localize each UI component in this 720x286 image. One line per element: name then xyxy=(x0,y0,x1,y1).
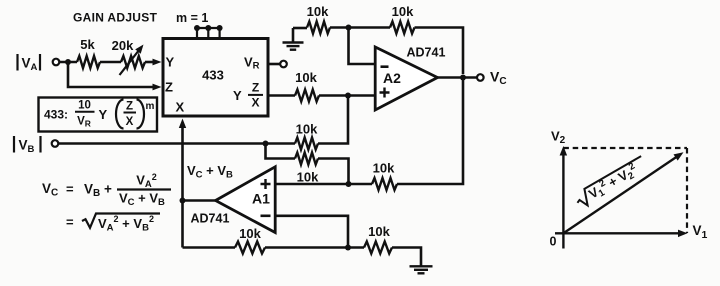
label A1 plus input xyxy=(261,179,271,189)
label VC + VB xyxy=(187,163,233,181)
multifunction converter 433 block xyxy=(163,39,268,117)
vector sum arrow xyxy=(563,152,683,233)
label A1 minus input xyxy=(261,215,271,218)
svg-text:X: X xyxy=(251,95,259,109)
svg-text:20k: 20k xyxy=(112,38,134,53)
svg-text:Z: Z xyxy=(165,80,173,95)
wire VC feedback vertical xyxy=(397,78,463,185)
svg-text:AD741: AD741 xyxy=(407,46,446,60)
pin label Y xyxy=(166,55,175,70)
resistor 10k R8 (A1 inverting to ground) xyxy=(364,242,392,254)
wire VB sum vertical xyxy=(318,96,348,144)
svg-text:VR: VR xyxy=(77,116,91,129)
svg-text:Y: Y xyxy=(99,107,108,122)
svg-text:VA2: VA2 xyxy=(136,172,157,190)
svg-text:V2: V2 xyxy=(551,129,566,147)
dashed line top xyxy=(563,147,687,149)
wire VA junction to Z pin xyxy=(68,62,162,90)
potentiometer 20k wiper arrow xyxy=(120,45,144,76)
svg-text:10k: 10k xyxy=(392,4,414,19)
svg-text:VA: VA xyxy=(22,56,38,74)
formula text 433: 10/VR Y (Z/X)^m xyxy=(44,100,155,129)
label 20k xyxy=(112,38,134,53)
label A1 xyxy=(252,191,270,207)
svg-text:A1: A1 xyxy=(252,191,270,207)
label 10k R4 xyxy=(296,122,318,137)
wire bottom feedback left xyxy=(183,246,236,249)
formula box 433 transfer function xyxy=(39,98,158,132)
label V1 xyxy=(693,223,708,241)
axis V1 (horizontal) xyxy=(555,230,688,238)
resistor 10k R3 (433 output to A2 +) xyxy=(295,90,319,102)
svg-text:10k: 10k xyxy=(296,122,318,137)
svg-text:0: 0 xyxy=(550,235,557,249)
wire X input vertical (VC+VB) xyxy=(179,119,186,248)
svg-text:10k: 10k xyxy=(368,224,390,239)
node A1 noninverting junction xyxy=(346,181,352,187)
svg-text:Y: Y xyxy=(233,88,242,103)
svg-text:X: X xyxy=(126,116,134,128)
svg-text:m: m xyxy=(146,101,155,112)
wire R3 to A2 + input xyxy=(319,94,374,97)
wire VB line xyxy=(58,142,295,145)
label AD741 (A1) xyxy=(191,212,230,226)
svg-text:GAIN ADJUST: GAIN ADJUST xyxy=(73,11,158,25)
label A2 xyxy=(383,70,401,86)
wire R1 to junction xyxy=(330,26,390,29)
label 10k R1 xyxy=(307,4,329,19)
wire A2 output xyxy=(438,76,478,79)
wire VR pin xyxy=(268,63,280,66)
dashed line right xyxy=(686,148,688,233)
node A1 output junction xyxy=(180,198,186,204)
svg-text:VA2 + VB2: VA2 + VB2 xyxy=(98,214,154,234)
label 10k R5 xyxy=(297,170,319,185)
svg-text:10k: 10k xyxy=(239,226,261,241)
svg-text:10k: 10k xyxy=(307,4,329,19)
svg-text:X: X xyxy=(176,100,185,115)
op-amp A2 AD741 xyxy=(375,47,437,110)
svg-text:433:: 433: xyxy=(44,108,68,122)
svg-text:VR: VR xyxy=(244,55,260,72)
resistor 10k R2 (A2 feedback) xyxy=(390,22,415,34)
svg-text:Z: Z xyxy=(126,101,133,113)
label AD741 (A2) xyxy=(407,46,446,60)
label A2 minus input xyxy=(381,65,389,68)
ground G1 xyxy=(283,28,308,50)
svg-text:VC: VC xyxy=(490,69,507,88)
node A1 inverting junction xyxy=(345,245,351,251)
svg-text:=: = xyxy=(66,182,74,197)
resistor 10k R6 (VC to A1 +) xyxy=(372,178,397,190)
label A2 plus input xyxy=(380,88,390,98)
equation VC = VB + VA^2/(VC+VB) xyxy=(42,172,171,208)
label m = 1 xyxy=(176,11,208,25)
wire R2 to output node xyxy=(415,28,464,75)
label 10k R8 xyxy=(368,224,390,239)
label 5k xyxy=(80,37,95,52)
equation VC = sqrt(VA^2+VB^2) xyxy=(66,214,160,234)
svg-text:m = 1: m = 1 xyxy=(176,11,208,25)
node A2 noninverting junction xyxy=(345,93,351,99)
pin label VR xyxy=(244,55,260,72)
label |VA| xyxy=(18,54,41,73)
label |VB| xyxy=(14,136,41,155)
wire VA terminal to 5k xyxy=(59,61,77,64)
wire A1 output to VC+VB node xyxy=(183,199,216,202)
svg-text:Z: Z xyxy=(252,81,259,95)
svg-text:=: = xyxy=(66,215,74,230)
label 10k R7 xyxy=(239,226,261,241)
input terminal |VB| xyxy=(52,140,59,147)
wire R8 to ground xyxy=(392,248,421,267)
svg-text:VC + VB: VC + VB xyxy=(187,163,233,181)
label sqrt(V1^2+V2^2) rotated xyxy=(573,155,650,211)
input terminal |VA| xyxy=(53,59,60,66)
pin label Y·Z/X xyxy=(233,81,263,110)
pin label Z xyxy=(165,80,173,95)
label VC xyxy=(490,69,507,88)
wire VB junction down to R5 xyxy=(266,144,296,159)
node A2 inverting junction xyxy=(346,25,352,31)
wire R7 to junction xyxy=(265,246,364,249)
node VC output junction xyxy=(460,75,466,81)
label 10k R3 xyxy=(295,70,317,85)
wire R5 to A1 + junction xyxy=(318,159,349,185)
resistor 10k R4 (VB to A2 +) xyxy=(295,138,318,150)
433 top trim terminals xyxy=(194,25,223,39)
wire 20k to Y pin xyxy=(145,59,162,66)
svg-text:10k: 10k xyxy=(297,170,319,185)
wire A2 inverting input xyxy=(349,28,375,65)
svg-text:V1: V1 xyxy=(693,223,708,241)
node junction VA/Z xyxy=(65,59,71,65)
svg-text:10k: 10k xyxy=(295,70,317,85)
svg-text:VC: VC xyxy=(42,181,58,199)
resistor 10k R5 (VB to A1 +) xyxy=(295,153,318,165)
svg-text:V12 + V22: V12 + V22 xyxy=(585,161,641,204)
label V2 xyxy=(551,129,566,147)
svg-text:VB: VB xyxy=(19,138,35,156)
axis V2 (vertical) xyxy=(560,146,568,249)
svg-text:5k: 5k xyxy=(80,37,95,52)
node junction VB xyxy=(263,141,269,147)
label 433 xyxy=(202,68,224,83)
pin label X xyxy=(176,100,185,115)
svg-text:433: 433 xyxy=(202,68,224,83)
wire 5k to 20k xyxy=(100,61,121,64)
svg-text:Y: Y xyxy=(166,55,175,70)
resistor 10k R7 (A1 feedback) xyxy=(235,242,265,254)
op-amp A1 AD741 xyxy=(216,167,276,233)
terminal VR output xyxy=(280,61,287,68)
label 10k R6 xyxy=(373,161,395,176)
svg-text:AD741: AD741 xyxy=(191,212,230,226)
svg-text:A2: A2 xyxy=(383,70,401,86)
svg-text:10: 10 xyxy=(78,100,91,112)
label 0 origin xyxy=(550,235,557,249)
svg-text:VC + VB: VC + VB xyxy=(119,191,165,209)
resistor 10k R1 (A2 inverting to ground) xyxy=(307,22,330,34)
ground G2 xyxy=(410,266,433,273)
terminal VC xyxy=(477,74,484,81)
potentiometer 20k xyxy=(121,56,145,68)
svg-text:VB +: VB + xyxy=(84,182,112,200)
svg-text:10k: 10k xyxy=(373,161,395,176)
wire 433 output to R3 xyxy=(268,94,295,97)
label 10k R2 xyxy=(392,4,414,19)
wire A1 inverting input xyxy=(276,216,348,248)
label GAIN ADJUST xyxy=(73,11,158,25)
wire R6 to A1 + xyxy=(276,183,372,186)
resistor 5k xyxy=(77,56,100,68)
